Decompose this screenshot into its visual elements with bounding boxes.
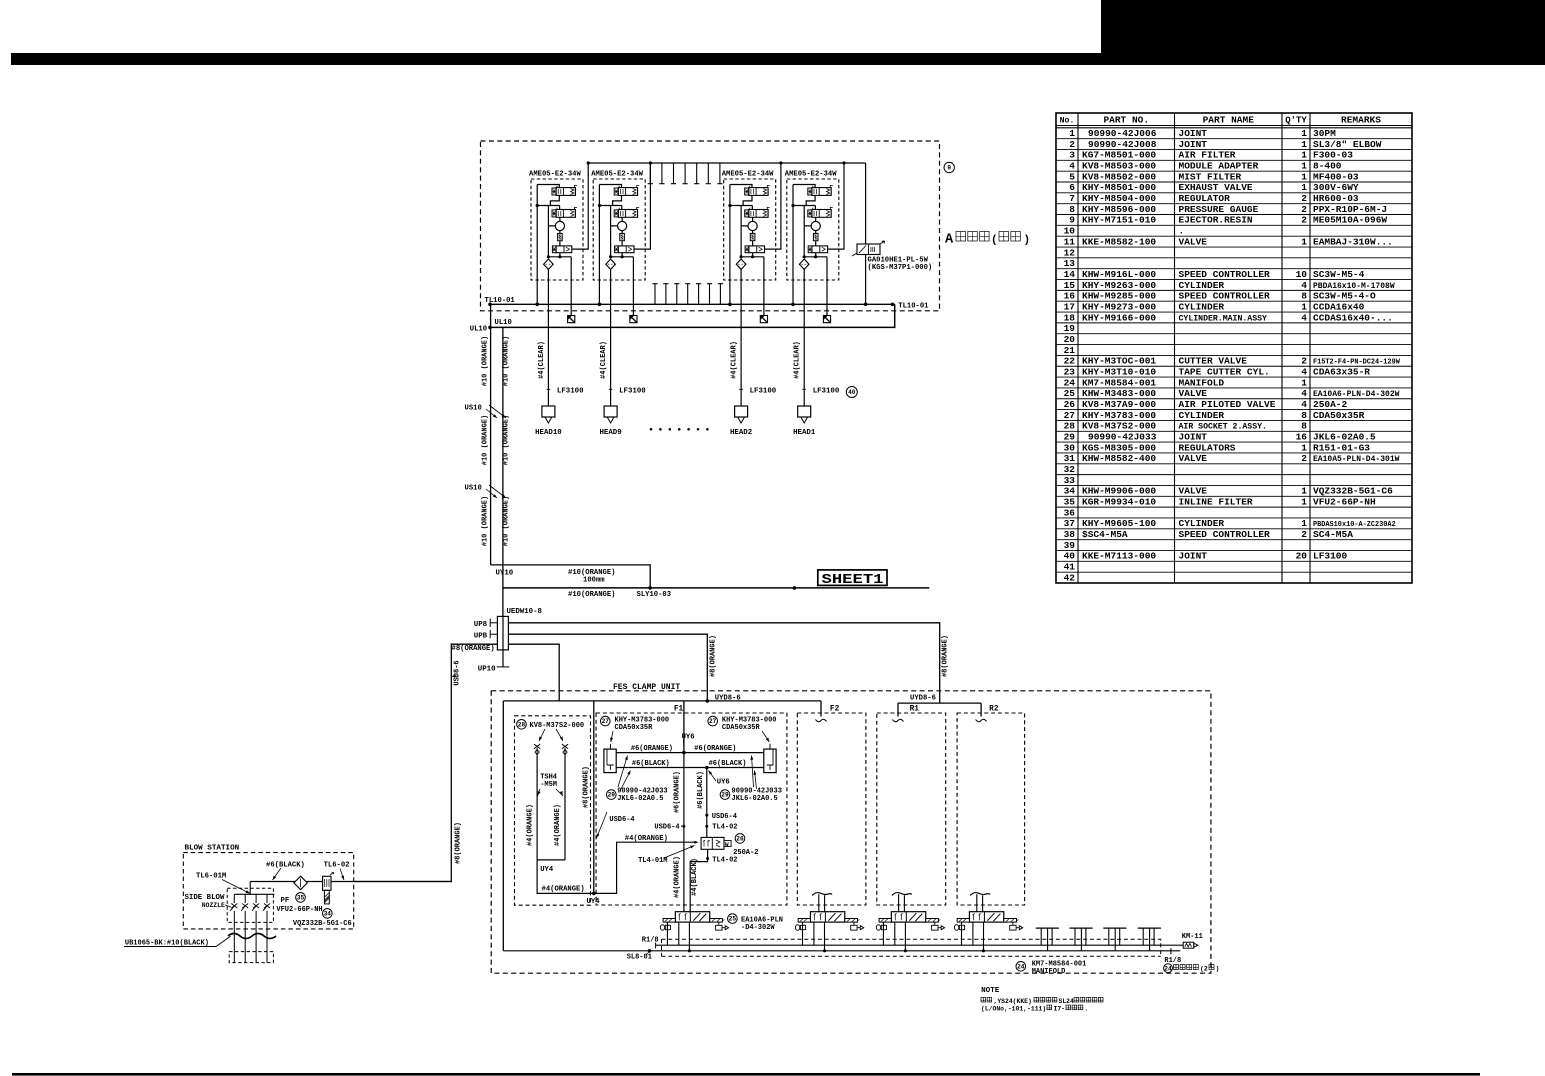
svg-text:REGULATOR: REGULATOR	[1179, 193, 1231, 204]
svg-text:13: 13	[1064, 258, 1076, 269]
blow manifold + nozzles	[230, 882, 274, 937]
svg-text:1: 1	[1301, 128, 1307, 139]
svg-text:KHY-M7151-010: KHY-M7151-010	[1082, 215, 1156, 226]
svg-text:250A-2: 250A-2	[1313, 399, 1348, 410]
svg-text:90990-42J006: 90990-42J006	[1088, 128, 1157, 139]
svg-text:SL24: SL24	[1059, 998, 1075, 1005]
break symbol F2 feed	[816, 719, 827, 722]
svg-text:TL10-01: TL10-01	[485, 297, 516, 305]
svg-text:MODULE ADAPTER: MODULE ADAPTER	[1179, 161, 1259, 172]
svg-text:EXHAUST VALVE: EXHAUST VALVE	[1179, 182, 1253, 193]
svg-text:HR600-03: HR600-03	[1313, 193, 1359, 204]
svg-text:EA10A6-PLN-D4-302W: EA10A6-PLN-D4-302W	[1313, 390, 1400, 399]
svg-text:AME05-E2-34W: AME05-E2-34W	[722, 171, 774, 179]
svg-text:JKL6-02A0.5: JKL6-02A0.5	[617, 795, 663, 803]
svg-text:KKE-M8582-100: KKE-M8582-100	[1082, 236, 1156, 247]
exhaust cluster	[1138, 928, 1161, 951]
label phi10 100mm	[568, 569, 615, 585]
wire phi6 black cylinder line	[616, 766, 764, 770]
svg-text:PART NAME: PART NAME	[1203, 115, 1255, 126]
svg-text:VFU2-66P-NH: VFU2-66P-NH	[276, 906, 322, 914]
svg-text:AME05-E2-34W: AME05-E2-34W	[785, 171, 837, 179]
silencer element group 3	[760, 316, 767, 323]
svg-text:F2: F2	[830, 705, 840, 713]
svg-text:MIST FILTER: MIST FILTER	[1179, 171, 1242, 182]
exhaust cluster	[1070, 928, 1093, 951]
svg-text:#6(ORANGE): #6(ORANGE)	[673, 771, 681, 813]
svg-text:ME05M10A-096W: ME05M10A-096W	[1313, 215, 1387, 226]
label SIDE BLOW	[185, 894, 225, 902]
svg-text:KGS-M8305-000: KGS-M8305-000	[1082, 442, 1156, 453]
svg-text:9: 9	[1069, 215, 1075, 226]
wire manifold rail upper	[656, 944, 1173, 946]
head valve group AME05-E2-34W #2	[591, 171, 645, 281]
svg-text:#8(ORANGE): #8(ORANGE)	[452, 645, 495, 653]
svg-text:11: 11	[1064, 236, 1076, 247]
svg-text:#4(ORANGE): #4(ORANGE)	[542, 886, 585, 894]
svg-text:UY6: UY6	[717, 779, 730, 787]
svg-text:SPEED CONTROLLER: SPEED CONTROLLER	[1179, 529, 1271, 540]
side blow nozzle box	[227, 888, 273, 922]
pipe size labels phi10 orange	[482, 336, 511, 546]
cylinder KHY-M3783 right	[764, 744, 776, 773]
svg-text:No.: No.	[1060, 117, 1075, 126]
svg-text:KHY-M3TOC-001: KHY-M3TOC-001	[1082, 356, 1156, 367]
svg-text:24: 24	[1064, 377, 1076, 388]
manifold dashed outline	[662, 939, 1161, 956]
svg-text:PART NO.: PART NO.	[1103, 115, 1149, 126]
svg-text:PBDA16x10-M-1708W: PBDA16x10-M-1708W	[1313, 282, 1395, 291]
svg-text:UY4: UY4	[540, 866, 554, 874]
svg-text:NOZZLE: NOZZLE	[202, 902, 225, 909]
label UY10	[496, 570, 514, 578]
label NOZZLE	[202, 902, 231, 909]
svg-text:SL8-01: SL8-01	[627, 953, 652, 961]
svg-text:1: 1	[1301, 301, 1307, 312]
svg-text:USD6-4: USD6-4	[609, 816, 634, 824]
svg-text:2: 2	[1301, 356, 1307, 367]
label phi6 black drop	[697, 771, 705, 809]
svg-text:SIDE BLOW: SIDE BLOW	[185, 894, 225, 902]
svg-text:10: 10	[1296, 269, 1308, 280]
svg-text:UL10: UL10	[470, 325, 487, 333]
svg-text:90990-42J033: 90990-42J033	[1088, 432, 1157, 443]
svg-text:R2: R2	[989, 705, 999, 713]
svg-text:TL4-02: TL4-02	[712, 824, 737, 832]
balloon 27 + label right	[708, 716, 777, 742]
svg-text:KM-11: KM-11	[1182, 933, 1203, 941]
label TSH4-M5M	[536, 773, 564, 796]
svg-text:#10(ORANGE): #10(ORANGE)	[568, 591, 615, 599]
svg-text:3: 3	[1069, 150, 1075, 161]
svg-text:2: 2	[1301, 193, 1307, 204]
svg-text:PRESSURE GAUGE: PRESSURE GAUGE	[1179, 204, 1259, 215]
svg-text:TL4-02: TL4-02	[712, 856, 737, 864]
svg-text:#10 (ORANGE): #10 (ORANGE)	[482, 415, 490, 465]
balloon 24 + manifold label	[1016, 960, 1086, 976]
wire socket 1 drop	[536, 756, 538, 860]
svg-text:KHW-M9285-000: KHW-M9285-000	[1082, 291, 1156, 302]
silencer element group 1	[568, 316, 575, 323]
title block: top right black block	[1101, 0, 1545, 65]
label phi4 orange mid	[625, 835, 668, 843]
svg-text:37: 37	[1064, 518, 1076, 529]
node USD6-4 right	[705, 813, 737, 821]
svg-text:CCDA16x40: CCDA16x40	[1313, 301, 1365, 312]
svg-text:UP8: UP8	[474, 621, 488, 629]
balloon 35 + VFU2-66P-NH	[276, 893, 322, 915]
svg-text:VQZ332B-5G1-C6: VQZ332B-5G1-C6	[293, 920, 352, 928]
svg-text:UYD8-6: UYD8-6	[910, 694, 936, 702]
label phi8 orange horizontal	[452, 645, 495, 653]
label UL10 (left)	[470, 325, 487, 333]
cable break wave	[228, 934, 276, 939]
svg-text:UY10: UY10	[496, 570, 514, 578]
wire phi8 orange to blow station	[354, 644, 498, 881]
svg-text:35: 35	[1064, 497, 1076, 508]
svg-text:-M5M: -M5M	[540, 781, 557, 789]
label phi4 orange bottom	[542, 886, 585, 894]
svg-text:JOINT: JOINT	[1179, 551, 1208, 562]
svg-text:9: 9	[947, 165, 951, 172]
svg-text:16: 16	[1064, 291, 1076, 302]
air socket 2	[562, 744, 568, 756]
svg-text:KHW-M9906-000: KHW-M9906-000	[1082, 486, 1156, 497]
node TL4-02 lower	[712, 856, 737, 864]
solenoid valve EA10A6 B (F2)	[795, 912, 863, 953]
svg-text:KHY-M9605-100: KHY-M9605-100	[1082, 518, 1156, 529]
wire: exhaust drop group 3	[763, 280, 765, 316]
air socket station box	[515, 716, 591, 905]
svg-text:LF3100: LF3100	[557, 388, 584, 396]
wire: pilot exhaust to top bus group 4	[828, 161, 846, 249]
svg-text:F300-03: F300-03	[1313, 150, 1353, 161]
svg-text:CUTTER VALVE: CUTTER VALVE	[1179, 356, 1248, 367]
svg-text:JKL6-02A0.5: JKL6-02A0.5	[1313, 432, 1376, 443]
wire SLY10-03 run	[503, 586, 929, 590]
label PF	[281, 897, 290, 905]
svg-text:R151-01-G3: R151-01-G3	[1313, 442, 1370, 453]
port UPB	[474, 630, 498, 641]
inline filter diamond	[294, 876, 307, 889]
svg-text:#8(ORANGE): #8(ORANGE)	[583, 766, 591, 808]
svg-text:F1: F1	[674, 705, 684, 713]
head valve group AME05-E2-34W #3	[722, 171, 776, 281]
node USD6-4 mid	[654, 824, 685, 832]
svg-text:1: 1	[1301, 150, 1307, 161]
svg-text:4: 4	[1301, 280, 1307, 291]
station box F1	[596, 705, 787, 905]
svg-text:CYLINDER.MAIN.ASSY: CYLINDER.MAIN.ASSY	[1179, 314, 1268, 323]
balloon 28 + label KV8-M37S2-000	[517, 720, 584, 731]
svg-text:#10 (ORANGE): #10 (ORANGE)	[503, 415, 511, 465]
svg-text:INLINE FILTER: INLINE FILTER	[1179, 497, 1253, 508]
BLOW STATION enclosure	[183, 853, 353, 929]
node TL4-02 upper	[705, 824, 737, 832]
balloon 9	[944, 162, 954, 172]
station box R2	[957, 705, 1025, 905]
svg-text:41: 41	[1064, 562, 1076, 573]
svg-text:USD6-4: USD6-4	[712, 813, 737, 821]
svg-text:Q'TY: Q'TY	[1285, 116, 1307, 126]
svg-text:14: 14	[1064, 269, 1076, 280]
svg-text:): )	[1216, 966, 1220, 973]
filter KM-11	[1171, 933, 1203, 954]
svg-text:CYLINDER: CYLINDER	[1179, 301, 1225, 312]
svg-text:CDA50x35R: CDA50x35R	[615, 724, 654, 732]
svg-text:20: 20	[1296, 551, 1308, 562]
svg-text:SC3W-M5-4-O: SC3W-M5-4-O	[1313, 291, 1376, 302]
head nozzle HEAD9	[600, 341, 647, 437]
svg-text:36: 36	[1064, 507, 1076, 518]
solenoid valve EA10A6 C (R1)	[876, 912, 944, 953]
svg-text:KHY-M3783-000: KHY-M3783-000	[1082, 410, 1156, 421]
svg-text:KV8-M37S2-000: KV8-M37S2-000	[1082, 421, 1156, 432]
wire: vacuum line group 1 to head	[547, 280, 549, 406]
wire: vacuum line group 2 to head	[610, 280, 612, 406]
svg-text:TL4-01M: TL4-01M	[638, 857, 667, 865]
wire: pilot valve drain	[864, 255, 868, 307]
svg-text:#4(CLEAR): #4(CLEAR)	[600, 341, 608, 379]
svg-text:19: 19	[1064, 323, 1076, 334]
svg-text:1: 1	[1301, 442, 1307, 453]
wire UEDW to rail	[508, 644, 559, 701]
port UP8	[474, 619, 498, 630]
svg-text:KV8-M8502-000: KV8-M8502-000	[1082, 171, 1156, 182]
label phi6 orange drop	[673, 771, 681, 813]
svg-text:$SC4-M5A: $SC4-M5A	[1082, 529, 1128, 540]
svg-text:US10: US10	[465, 405, 482, 413]
head valve group AME05-E2-34W #1	[529, 171, 583, 281]
svg-text:5: 5	[1069, 171, 1075, 182]
svg-text:.: .	[1179, 226, 1185, 237]
label SL8-01	[627, 952, 652, 962]
label UYD8-6 (F1)	[715, 694, 741, 702]
parts table	[1056, 113, 1412, 583]
wire: exhaust drop group 4	[826, 280, 828, 316]
svg-text:17: 17	[1064, 301, 1076, 312]
svg-text:29: 29	[1064, 432, 1076, 443]
svg-text:KHY-M8501-000: KHY-M8501-000	[1082, 182, 1156, 193]
ellipsis between heads	[650, 428, 709, 431]
svg-text:AME05-E2-34W: AME05-E2-34W	[529, 171, 581, 179]
svg-text:JOINT: JOINT	[1179, 139, 1208, 150]
svg-text:(L/ONo,-101,-111): (L/ONo,-101,-111)	[981, 1006, 1046, 1013]
label phi6 black leader	[266, 861, 305, 880]
svg-text:LF3100: LF3100	[813, 388, 840, 396]
svg-text:KV8-M37S2-000: KV8-M37S2-000	[530, 722, 585, 730]
label UY4 (junction)	[587, 898, 601, 906]
silencer element group 2	[630, 316, 637, 323]
silencer element group 4	[823, 316, 830, 323]
labels phi4 orange sockets	[526, 804, 562, 846]
svg-text:HEAD9: HEAD9	[600, 429, 622, 437]
svg-text:33: 33	[1064, 475, 1076, 486]
svg-text:2: 2	[1301, 453, 1307, 464]
svg-text:40: 40	[1064, 551, 1076, 562]
svg-text:#4(ORANGE): #4(ORANGE)	[554, 804, 562, 846]
label phi8 orange UPB riser	[709, 635, 717, 677]
svg-text:VALVE: VALVE	[1179, 486, 1208, 497]
balloon 29 + joint label right	[720, 755, 782, 803]
svg-text:F15T2-F4-PN-DC24-129W: F15T2-F4-PN-DC24-129W	[1313, 359, 1401, 367]
svg-text:#6(BLACK): #6(BLACK)	[709, 760, 747, 768]
svg-text:29: 29	[608, 792, 616, 799]
svg-text:KHW-M916L-000: KHW-M916L-000	[1082, 269, 1156, 280]
svg-text:EA10A5-PLN-D4-301W: EA10A5-PLN-D4-301W	[1313, 455, 1400, 464]
wire TL10-01 bus	[488, 303, 895, 307]
svg-text:KHY-M9273-000: KHY-M9273-000	[1082, 301, 1156, 312]
svg-text:28: 28	[1064, 421, 1076, 432]
svg-text:HEAD10: HEAD10	[535, 429, 562, 437]
wire blow rail TL6	[250, 881, 451, 883]
svg-text:KHW-M3483-000: KHW-M3483-000	[1082, 388, 1156, 399]
SHEET1 reference box	[818, 570, 887, 588]
port R1/8 right	[1164, 957, 1181, 965]
wire: pilot exhaust to top bus group 2	[634, 161, 652, 249]
svg-text:1: 1	[1301, 236, 1307, 247]
title block: full-width black bar	[11, 53, 1545, 65]
A-head unit dashed enclosure	[481, 141, 940, 311]
svg-text:1: 1	[1301, 161, 1307, 172]
label phi8 orange vertical	[454, 822, 462, 864]
wire phi8 drop to UY4	[592, 701, 596, 895]
svg-text:30PM: 30PM	[1313, 128, 1336, 139]
svg-text:8: 8	[1301, 421, 1307, 432]
svg-text:16: 16	[1296, 432, 1308, 443]
pilot valve 250A-2	[701, 837, 731, 849]
label UY6 top	[682, 734, 695, 751]
balloon 29 + joint label left	[607, 755, 668, 803]
svg-text:8: 8	[1301, 291, 1307, 302]
svg-text:,YS24(KKE): ,YS24(KKE)	[994, 998, 1032, 1005]
svg-text:CDA50x35R: CDA50x35R	[1313, 410, 1365, 421]
wire: pilot exhaust to top bus group 3	[765, 161, 783, 249]
svg-text:42: 42	[1064, 572, 1076, 583]
spare head stubs (upper)	[648, 163, 723, 184]
svg-text:34: 34	[1064, 486, 1076, 497]
node US10 upper	[465, 405, 507, 420]
svg-text:MANIFOLD: MANIFOLD	[1179, 377, 1225, 388]
label UL10 (inner)	[495, 319, 512, 327]
svg-text:21: 21	[1064, 345, 1076, 356]
port UP10 stub	[478, 666, 510, 674]
svg-text:W: W	[725, 841, 729, 848]
head nozzle HEAD2	[730, 341, 777, 437]
svg-text:22: 22	[1064, 356, 1076, 367]
svg-text:24: 24	[1164, 965, 1172, 972]
svg-text:KHY-M8596-000: KHY-M8596-000	[1082, 204, 1156, 215]
wire: pilot exhaust to top bus group 1	[572, 161, 590, 249]
svg-text:LF3100: LF3100	[750, 388, 777, 396]
svg-text:1: 1	[1301, 182, 1307, 193]
svg-text:(: (	[991, 235, 998, 247]
cylinder KHY-M3783 left	[604, 744, 616, 773]
svg-text:NOTE: NOTE	[981, 987, 1000, 995]
label phi10 orange SLY	[568, 591, 615, 599]
wire phi6 black drop to 250A-2	[706, 768, 708, 838]
valve exhaust risers	[812, 893, 832, 912]
svg-text:29: 29	[721, 792, 729, 799]
svg-text:#10 (ORANGE): #10 (ORANGE)	[503, 496, 511, 546]
svg-text:(KGS-M37P1-000): (KGS-M37P1-000)	[868, 264, 933, 272]
svg-text:SC3W-M5-4: SC3W-M5-4	[1313, 269, 1365, 280]
svg-text:1: 1	[1301, 377, 1307, 388]
wire socket 2 drop	[564, 756, 566, 860]
svg-text:32: 32	[1064, 464, 1076, 475]
svg-text:4: 4	[1301, 388, 1307, 399]
svg-text:#4(ORANGE): #4(ORANGE)	[673, 856, 681, 898]
break symbol R1 feed	[893, 719, 904, 722]
svg-text:1: 1	[1069, 128, 1075, 139]
wire riser UL10 left	[490, 304, 492, 565]
svg-text:#6(BLACK): #6(BLACK)	[697, 771, 705, 809]
svg-text:1: 1	[1301, 518, 1307, 529]
label BLOW STATION	[185, 845, 240, 853]
svg-text:4: 4	[1301, 312, 1307, 323]
svg-text:CYLINDER: CYLINDER	[1179, 518, 1225, 529]
svg-text:TAPE CUTTER CYL.: TAPE CUTTER CYL.	[1179, 366, 1270, 377]
label FES CLAMP UNIT	[613, 683, 680, 692]
wire: exhaust drop group 1	[570, 280, 572, 316]
svg-text:.: .	[1085, 1006, 1089, 1013]
svg-text:100mm: 100mm	[583, 577, 605, 585]
svg-text:#8(ORANGE): #8(ORANGE)	[709, 635, 717, 677]
balloon 26 + label 250A-2	[733, 834, 758, 857]
svg-text:VALVE: VALVE	[1179, 388, 1208, 399]
svg-text:UPB: UPB	[474, 633, 488, 641]
svg-text:SLY10-03: SLY10-03	[637, 591, 672, 599]
svg-text:10: 10	[1064, 226, 1076, 237]
wire: vacuum line group 4 to head	[803, 280, 805, 406]
head valve group AME05-E2-34W #4	[785, 171, 839, 281]
leaders from KV8 label to sockets	[538, 729, 565, 742]
svg-text:15: 15	[1064, 280, 1076, 291]
wire SL8-01 rail	[503, 949, 1180, 953]
svg-text:HEAD1: HEAD1	[793, 429, 816, 437]
svg-text:1: 1	[1301, 486, 1307, 497]
svg-text:AIR PILOTED VALVE: AIR PILOTED VALVE	[1179, 399, 1276, 410]
svg-text:UEDW10-8: UEDW10-8	[507, 608, 543, 616]
label TL10-01 (left)	[485, 297, 516, 305]
svg-text:(2: (2	[1200, 966, 1208, 973]
solenoid valve EA10A6 A (F1)	[660, 912, 728, 953]
wire: exhaust drop group 2	[632, 280, 634, 316]
svg-text:#6(BLACK): #6(BLACK)	[632, 760, 670, 768]
wire clamp supply rail	[503, 701, 821, 951]
svg-text:UL10: UL10	[495, 319, 512, 327]
svg-text:1: 1	[1301, 497, 1307, 508]
svg-text:18: 18	[1064, 312, 1076, 323]
NOTE heading	[981, 987, 1000, 995]
label TL6-01M	[196, 873, 251, 895]
svg-text:VQZ332B-5G1-C6: VQZ332B-5G1-C6	[1313, 486, 1393, 497]
svg-text:KHY-M8504-000: KHY-M8504-000	[1082, 193, 1156, 204]
labels phi4 drops	[673, 856, 699, 898]
svg-text:26: 26	[1064, 399, 1076, 410]
node USD8-6	[451, 660, 461, 685]
svg-text:PBDAS10x10-A-ZC230A2: PBDAS10x10-A-ZC230A2	[1313, 521, 1396, 529]
label phi8 orange drop	[583, 766, 591, 808]
svg-text:7: 7	[1069, 193, 1075, 204]
balloon 24 + fitting note	[1164, 964, 1220, 973]
svg-text:4: 4	[1301, 366, 1307, 377]
break symbol R2 feed	[976, 719, 987, 722]
svg-text:TL6-01M: TL6-01M	[196, 873, 226, 881]
svg-text:6: 6	[1069, 182, 1075, 193]
svg-text:38: 38	[1064, 529, 1076, 540]
svg-text:35: 35	[297, 895, 305, 902]
